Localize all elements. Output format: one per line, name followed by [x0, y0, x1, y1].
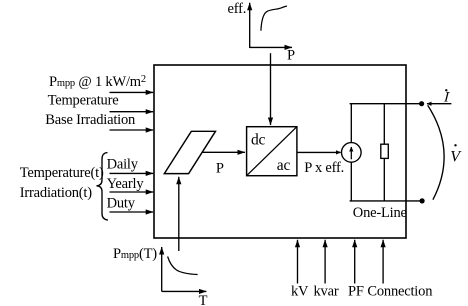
- wire: Connection input arrow: [382, 240, 384, 284]
- Pmpp(T) graph horizontal axis: [162, 290, 207, 292]
- PV panel (parallelogram): [164, 131, 215, 173]
- svg-text:Temperature(t): Temperature(t): [20, 165, 104, 181]
- wire: Daily arrow: [110, 172, 154, 174]
- wire: kvar input arrow: [324, 240, 326, 284]
- svg-text:T: T: [199, 293, 208, 306]
- wire: P from eff graph into dc-ac converter: [270, 53, 272, 125]
- svg-text:P: P: [287, 48, 295, 64]
- Pmpp(T) graph vertical axis: [161, 247, 163, 291]
- voltage arc V: [428, 105, 444, 200]
- wire: Yearly arrow: [110, 191, 154, 193]
- svg-text:kvar: kvar: [314, 283, 339, 299]
- wire: P from panel to converter: [202, 151, 245, 153]
- svg-text:P x eff.: P x eff.: [304, 160, 344, 176]
- wire: Duty arrow: [110, 211, 154, 213]
- wire: PF input arrow: [354, 240, 356, 284]
- dc-ac converter box: [247, 127, 297, 176]
- svg-text:P: P: [216, 161, 224, 177]
- current arrow into node I: [427, 103, 451, 105]
- one-line: top bus wire: [350, 103, 422, 105]
- current source circle: [342, 143, 362, 163]
- one-line: bottom bus wire: [350, 200, 423, 202]
- svg-text:Base Irradiation: Base Irradiation: [45, 112, 136, 128]
- svg-text:Connection: Connection: [367, 283, 433, 299]
- current source internal arrow: [350, 147, 352, 159]
- PV array model box: [154, 65, 406, 238]
- wire: kV input arrow: [297, 240, 299, 284]
- svg-text:Pmpp @ 1 kW/m2: Pmpp @ 1 kW/m2: [49, 74, 146, 90]
- svg-text:PF: PF: [348, 283, 364, 299]
- svg-text:Temperature: Temperature: [48, 93, 119, 109]
- svg-text:Duty: Duty: [107, 196, 136, 212]
- efficiency curve: [261, 6, 287, 31]
- one-line: current source branch wire (upper): [350, 104, 352, 143]
- svg-text:eff.: eff.: [228, 1, 247, 17]
- node: terminal V (dot): [420, 198, 425, 203]
- svg-text:kV: kV: [291, 283, 309, 299]
- svg-text:One-Line: One-Line: [353, 205, 407, 221]
- I phasor dot: [445, 89, 447, 91]
- eff vs P graph axes: [249, 3, 251, 48]
- one-line: impedance branch wire (upper): [383, 104, 385, 145]
- brace grouping Daily/Yearly/Duty: [97, 153, 109, 221]
- wire: Temperature input arrow: [110, 111, 154, 113]
- one-line: impedance branch wire (lower): [383, 158, 385, 201]
- Pmpp(T) decay curve: [168, 257, 198, 275]
- converter diagonal: [247, 127, 297, 176]
- svg-text:dc: dc: [251, 131, 266, 148]
- wire: Base Irradiation input arrow: [110, 129, 154, 131]
- svg-text:ac: ac: [277, 157, 291, 174]
- wire: Pmpp input arrow: [110, 91, 154, 93]
- svg-text:Pmpp(T): Pmpp(T): [113, 246, 157, 262]
- impedance rectangle: [381, 144, 389, 158]
- svg-text:V: V: [450, 149, 462, 166]
- one-line: current source branch wire (lower): [350, 162, 352, 201]
- V phasor dot: [454, 144, 456, 146]
- wire: Pmpp(T) curve up to PV panel: [178, 177, 180, 251]
- node: terminal I (dot): [419, 101, 424, 106]
- svg-text:Daily: Daily: [107, 156, 139, 172]
- wire: P x eff. to current source: [297, 151, 341, 153]
- svg-text:Irradiation(t): Irradiation(t): [20, 185, 92, 201]
- svg-text:Yearly: Yearly: [107, 176, 145, 192]
